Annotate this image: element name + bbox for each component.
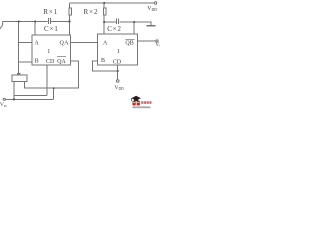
wire clock pin to box1 top xyxy=(34,22,36,36)
wire CD2 pin down to VDD terminal xyxy=(117,65,119,80)
svg-text:C×1: C×1 xyxy=(44,26,59,33)
terminal VDD top circle xyxy=(154,2,156,4)
junction B2/CD2 xyxy=(117,70,119,72)
logo red character 2 xyxy=(137,101,140,106)
resistor R2 body xyxy=(103,8,106,15)
junction VSS rail xyxy=(13,98,15,100)
svg-text:C×2: C×2 xyxy=(107,26,122,33)
wire buzzer left down to VSS rail xyxy=(13,81,15,99)
svg-text:R×1: R×1 xyxy=(43,9,58,16)
buzzer body xyxy=(12,75,27,81)
svg-text:A: A xyxy=(35,41,40,47)
logo graduation cap base xyxy=(134,99,138,101)
logo red small text row xyxy=(141,101,143,104)
svg-text:A: A xyxy=(103,41,108,47)
wire QA output to box2 A input xyxy=(71,42,98,44)
flip-flop box1 xyxy=(32,35,70,65)
wire VDD top rail xyxy=(70,2,155,4)
capacitor C1 plates xyxy=(49,18,51,24)
svg-text:B: B xyxy=(35,58,39,64)
junction node1 RC xyxy=(69,20,71,22)
buzzer top nub xyxy=(18,73,21,75)
svg-text:B: B xyxy=(101,58,105,64)
wire input vertical to A and B xyxy=(18,22,20,75)
wire C×2 to ground corner xyxy=(119,22,151,26)
wire VSS riser to QbarA net xyxy=(53,88,55,99)
logo graduation cap board xyxy=(131,96,141,101)
overline QbarB xyxy=(125,38,134,40)
wire QbarA net: box1 right to buzzer bottom-right xyxy=(25,61,79,88)
svg-text:1: 1 xyxy=(47,49,50,55)
wire C×1 right to node xyxy=(51,21,70,23)
capacitor C2 plates xyxy=(117,18,119,24)
svg-text:CD: CD xyxy=(46,59,55,65)
overline QbarA xyxy=(57,56,66,58)
svg-text:VDD: VDD xyxy=(114,85,124,91)
wire node1 up to resistor R1 xyxy=(69,3,71,22)
junction VSS riser xyxy=(53,87,55,89)
wire input left horizontal xyxy=(3,21,48,23)
resistor R1 body xyxy=(69,8,71,15)
wire CD1 branch to buzzer-left vertical xyxy=(14,94,47,96)
wire input left corner/lead-in xyxy=(0,22,3,29)
logo red character 1 xyxy=(133,101,136,106)
wire node1 down to box1 top xyxy=(69,22,71,36)
wire branch to B input xyxy=(19,61,33,63)
terminal Vo circle xyxy=(156,40,158,42)
wire VSS rail xyxy=(5,98,53,100)
terminal VSS circle xyxy=(3,98,5,100)
wire node2 to C×2 xyxy=(104,21,116,23)
svg-text:QB: QB xyxy=(125,41,133,47)
svg-text:CD: CD xyxy=(113,59,122,65)
svg-text:Vo: Vo xyxy=(155,42,160,48)
terminal VDD bottom circle xyxy=(116,80,119,83)
junction node2 RC xyxy=(103,21,105,23)
wire node2 down to box2 top xyxy=(103,22,105,34)
svg-text:QA: QA xyxy=(57,59,66,65)
wire branch to A input xyxy=(19,42,33,44)
wire cap2 junction down to box2 top xyxy=(133,22,135,34)
logo gray url text xyxy=(132,106,150,108)
wire R2 leads xyxy=(103,3,105,22)
logo cap tassel xyxy=(131,98,133,101)
junction R2 top on VDD rail xyxy=(103,2,105,4)
wire B2 input net xyxy=(92,61,117,71)
junction node input/AB xyxy=(18,20,20,22)
wire CD1 pin down xyxy=(46,65,48,96)
svg-text:R×2: R×2 xyxy=(84,9,99,16)
svg-text:QA: QA xyxy=(60,41,70,47)
flip-flop box2 xyxy=(98,34,138,65)
svg-text:Vss: Vss xyxy=(0,102,7,108)
svg-text:VDD: VDD xyxy=(147,6,157,12)
ground bar xyxy=(146,25,155,27)
junction node cap2/clock xyxy=(133,21,135,23)
svg-text:1: 1 xyxy=(117,49,120,55)
wire QB output to Vo terminal xyxy=(138,40,156,42)
junction node clock1 xyxy=(34,20,36,22)
